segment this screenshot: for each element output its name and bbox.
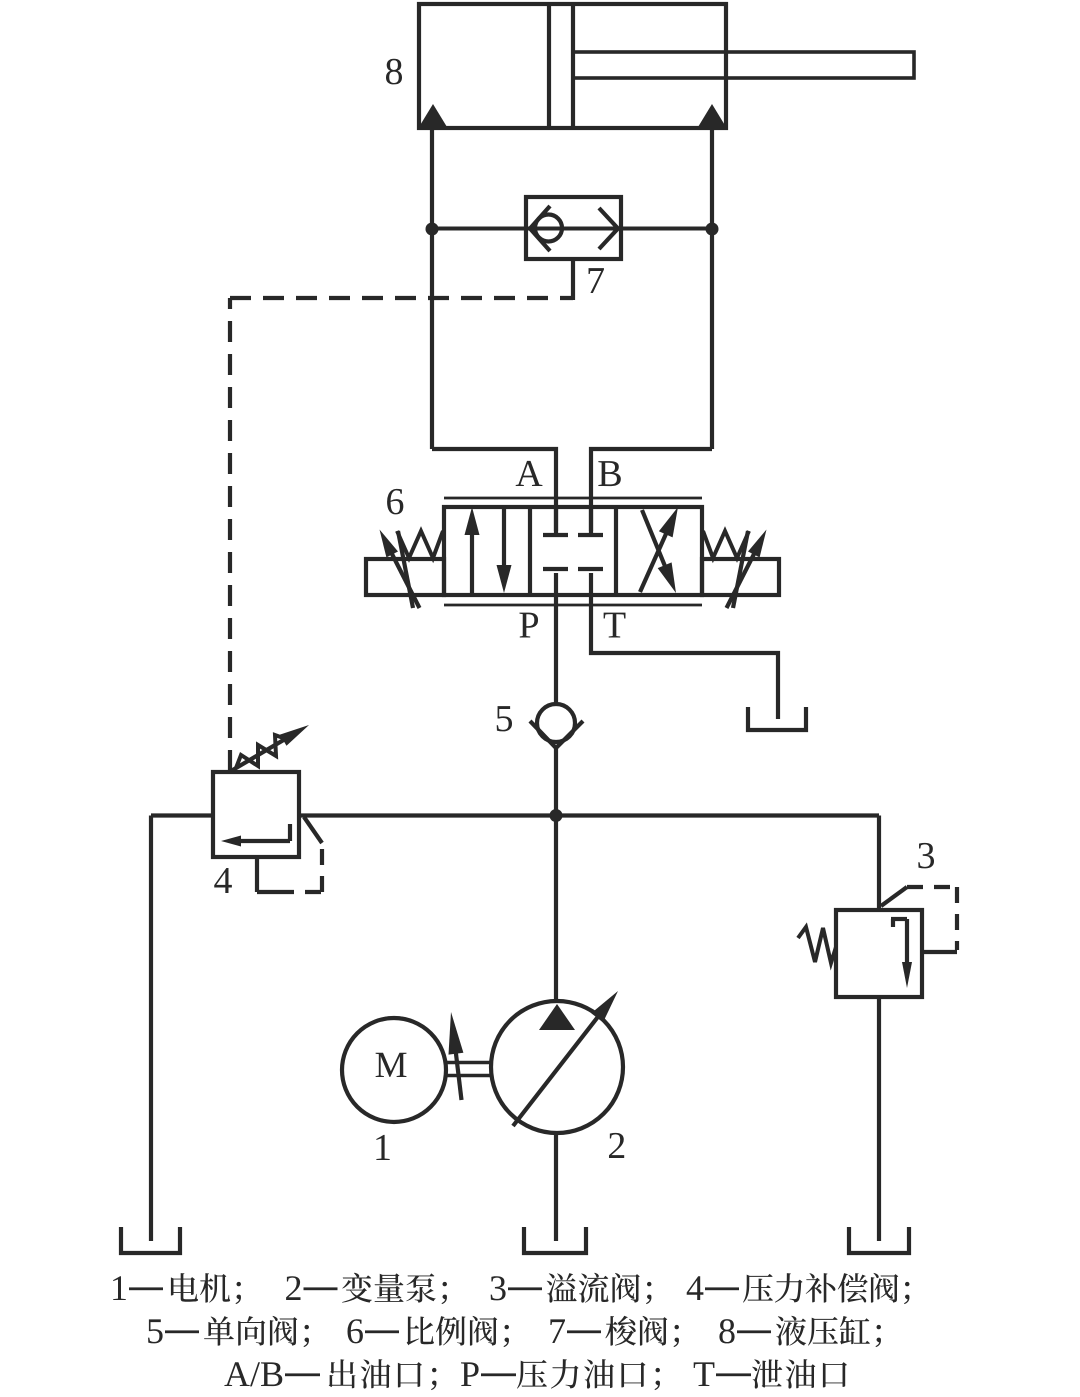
wire pump inlet down [554, 1133, 558, 1241]
tank pump [524, 1227, 586, 1253]
valve 3 pilot tap [881, 887, 907, 906]
cylinder piston rod [573, 52, 914, 78]
valve 3 pilot return [920, 950, 957, 954]
cylinder piston [549, 4, 573, 128]
valve 6 cross arrow up [640, 507, 678, 592]
valve 3 spring [798, 927, 836, 963]
solenoid right slash [733, 531, 748, 608]
legend 1 motor [113, 1273, 241, 1304]
label 5 [497, 706, 512, 731]
wire A jog [432, 449, 556, 533]
valve 6 body [444, 507, 702, 595]
label 8 [386, 59, 402, 85]
valve 4 body [213, 772, 299, 857]
valve 6 port B stub [578, 507, 603, 535]
wire cylinder left port down [430, 128, 434, 449]
tank right [849, 1227, 909, 1253]
valve 3 pilot dashed [907, 887, 957, 950]
label T [604, 613, 626, 638]
valve 6 port T stub [578, 569, 603, 595]
valve 4 adjust arrow [231, 725, 309, 771]
shuttle valve 7 through wire [432, 227, 712, 231]
legend 7 shuttle valve [550, 1316, 679, 1347]
label A [516, 461, 543, 486]
wire left branch down [149, 816, 153, 1242]
label B [598, 461, 620, 486]
wire shuttle valve outlet [571, 259, 575, 300]
node main line junction [550, 809, 563, 822]
pump 2 outlet triangle [539, 1004, 575, 1030]
pilot wire dashed vertical [228, 298, 232, 771]
wire check valve to main line [554, 748, 558, 816]
pump 2 variable arrow [513, 991, 618, 1126]
legend 2 variable pump [286, 1273, 447, 1304]
valve 6 port P stub [543, 569, 568, 595]
hydraulic cylinder 8 body [419, 4, 726, 128]
solenoid left box [366, 559, 444, 595]
cylinder left port arrow [419, 104, 447, 127]
legend P pressure port [461, 1359, 660, 1390]
legend 5 check valve [148, 1316, 309, 1347]
valve 6 divider left [528, 507, 532, 595]
node left shuttle junction [426, 223, 439, 236]
label 4 [214, 868, 232, 893]
valve 6 down arrow [497, 508, 512, 593]
check valve 5 ball [537, 704, 575, 742]
valve 3 internal arrow [891, 919, 912, 988]
pump 2 circle [491, 1001, 623, 1133]
motor 1 circle [342, 1018, 446, 1122]
shuttle valve 7 right seat [599, 208, 618, 249]
wire cylinder right port down [710, 128, 714, 449]
legend 6 proportional valve [348, 1316, 509, 1347]
valve 3 body [836, 910, 922, 997]
wire right branch down [877, 816, 881, 911]
legend 8 hydraulic cylinder [719, 1316, 881, 1347]
valve 4 pilot tap [304, 817, 322, 843]
wire pump outlet up [554, 816, 558, 1001]
pilot wire dashed horizontal [230, 296, 573, 300]
valve 4 spring [236, 735, 286, 768]
valve 4 pilot dashed [278, 843, 324, 892]
motor shaft arrow [449, 1012, 464, 1100]
label P [519, 613, 538, 638]
shuttle valve 7 left seat [530, 206, 550, 251]
valve 4 drain wire [257, 857, 278, 892]
tank left [121, 1227, 180, 1253]
valve 6 cross arrow down [642, 510, 676, 593]
wire main line right [299, 813, 879, 817]
label 6 [387, 489, 403, 515]
legend A/B outlet ports [224, 1359, 436, 1390]
motor shaft [446, 1063, 491, 1076]
label 3 [918, 843, 934, 869]
legend 4 pressure compensation valve [687, 1273, 910, 1304]
solenoid left spring [397, 531, 443, 558]
legend 3 relief valve [491, 1273, 652, 1304]
wire P down to check valve [554, 595, 558, 704]
valve 6 bottom rail [444, 604, 702, 607]
valve 6 divider right [614, 507, 618, 595]
solenoid right arrow [727, 530, 767, 609]
shuttle valve 7 ball [535, 215, 562, 242]
wire valve 3 to tank [877, 997, 881, 1241]
wire B jog [591, 449, 712, 533]
shuttle valve 7 body [526, 197, 621, 259]
wire T drain [591, 595, 778, 719]
label 7 [589, 268, 604, 293]
label 2 [609, 1133, 624, 1158]
tank T drain [748, 707, 806, 730]
solenoid right spring [703, 531, 749, 558]
check valve 5 seat [530, 721, 583, 748]
node right shuttle junction [706, 223, 719, 236]
wire main line left [151, 813, 213, 817]
valve 6 up arrow [465, 507, 480, 594]
valve 4 internal arrow [221, 824, 290, 847]
solenoid right box [702, 559, 779, 595]
label 1 [376, 1135, 389, 1160]
valve 6 top rail [444, 497, 702, 500]
solenoid left arrow [380, 530, 420, 609]
valve 6 port A stub [543, 507, 568, 535]
cylinder right port arrow [698, 104, 726, 127]
solenoid left slash [398, 531, 413, 608]
label M [376, 1053, 407, 1077]
legend T drain port [694, 1359, 847, 1389]
